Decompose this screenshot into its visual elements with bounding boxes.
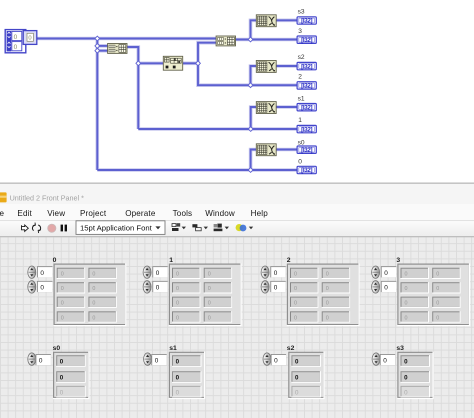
svg-text:0: 0: [14, 34, 18, 41]
toolbar: [0, 221, 474, 236]
node J1b: [95, 44, 100, 49]
node J1: [95, 36, 100, 41]
array index box: [23, 31, 37, 45]
node J6: [248, 168, 253, 173]
indicator 3: [297, 36, 316, 44]
svg-text:2: 2: [287, 257, 291, 264]
svg-text:0: 0: [53, 257, 57, 264]
reorder button (colored): [236, 224, 254, 231]
wire halo: [37, 20, 297, 170]
indicator s3: [297, 17, 316, 25]
svg-text:s1: s1: [298, 96, 305, 103]
sum function U6 (s2): [256, 61, 276, 73]
svg-text:0: 0: [298, 159, 302, 166]
menu bar: [0, 204, 474, 220]
svg-text:Tools: Tools: [173, 209, 193, 218]
window top separator: [0, 183, 474, 184]
indicator 1: [297, 125, 316, 133]
distribute objects button: [192, 224, 208, 231]
node J1c: [95, 48, 100, 53]
svg-text:s3: s3: [396, 345, 404, 352]
resize objects button: [214, 224, 229, 232]
node J4: [248, 37, 253, 42]
svg-text:Untitled 2 Front Panel *: Untitled 2 Front Panel *: [10, 194, 85, 203]
svg-text:Help: Help: [251, 209, 269, 218]
panel workspace with grid: [0, 237, 474, 418]
svg-text:0: 0: [14, 44, 18, 51]
indicator s1: [297, 104, 316, 112]
sum function U4 (s0): [256, 144, 276, 156]
title bar: [0, 184, 474, 204]
font selector box: [76, 221, 165, 235]
run button (arrow): [21, 225, 28, 231]
svg-text:3: 3: [396, 257, 400, 264]
reshape function U2: [163, 56, 182, 70]
indicator s2: [297, 62, 316, 70]
node J3: [248, 127, 253, 132]
svg-text:1: 1: [169, 257, 173, 264]
node J2b: [196, 61, 201, 66]
svg-text:s1: s1: [169, 345, 177, 352]
diagram background: [0, 0, 474, 183]
svg-text:s0: s0: [53, 345, 61, 352]
svg-text:Window: Window: [205, 209, 235, 218]
svg-text:View: View: [47, 209, 65, 218]
pause button: [61, 225, 63, 232]
node J5: [248, 83, 253, 88]
array constant A1 (input array terminal): [5, 30, 37, 53]
abort (stop) button greyed: [48, 224, 56, 232]
menu separator: [0, 219, 474, 222]
svg-text:s2: s2: [298, 54, 305, 61]
wire cores: [37, 20, 297, 170]
indicator s0: [297, 146, 316, 154]
interleave function U1: [108, 44, 127, 54]
svg-text:File: File: [0, 209, 4, 218]
svg-text:Edit: Edit: [17, 209, 32, 218]
svg-text:s2: s2: [287, 345, 295, 352]
svg-text:15pt Application Font: 15pt Application Font: [80, 224, 153, 233]
menu items: [0, 209, 268, 218]
svg-text:s3: s3: [298, 9, 305, 16]
svg-text:1: 1: [298, 117, 302, 124]
indicator 2: [297, 82, 316, 90]
sum function U5 (s1): [256, 102, 276, 114]
svg-text:Operate: Operate: [125, 209, 156, 218]
toolbar bottom border: [0, 236, 474, 237]
run continuous button (cyclic arrows): [32, 223, 40, 233]
sum function U7 (s3): [256, 15, 276, 27]
align objects button: [172, 223, 186, 231]
LabVIEW window icon: [0, 192, 7, 202]
svg-text:2: 2: [298, 73, 302, 80]
svg-text:0: 0: [28, 36, 31, 42]
svg-text:s0: s0: [298, 140, 305, 147]
indicator 0: [297, 166, 316, 174]
interleave function U3: [216, 36, 235, 46]
svg-text:Project: Project: [80, 209, 107, 218]
svg-text:3: 3: [298, 28, 302, 35]
node J2: [136, 61, 141, 66]
